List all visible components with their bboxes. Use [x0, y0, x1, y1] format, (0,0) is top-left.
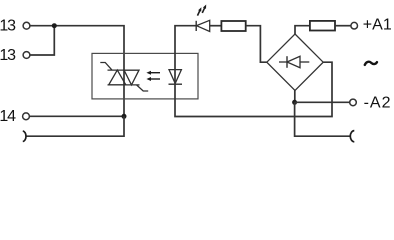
plug contact arc lower right — [350, 131, 354, 142]
bridge diode triangle — [287, 56, 300, 67]
bridge diode cathode bar — [286, 56, 288, 68]
wire LED to resistor R1 — [210, 25, 222, 27]
photo-triac right triangle — [124, 70, 139, 85]
optocoupler box U1 — [92, 53, 198, 99]
photo-triac upper rail — [108, 69, 140, 71]
terminal circle -A2 — [350, 99, 357, 106]
terminal label -A2 — [364, 95, 392, 112]
opto LED triangle — [169, 70, 181, 84]
bridge diode lead left — [279, 61, 287, 63]
bridge-contact wire lower right — [295, 102, 351, 136]
junction dot node 14 — [122, 114, 127, 119]
bridge-contact wire lower left — [26, 116, 124, 136]
opto light arrow upper — [146, 71, 160, 75]
junction dot node A2 — [292, 100, 297, 105]
wire from 13 upper to corner and down to node 14 — [30, 26, 124, 117]
svg-text:-A2: -A2 — [364, 95, 392, 112]
terminal circle 13 upper — [23, 22, 30, 29]
junction dot 13 bus — [52, 23, 57, 28]
bridge diode lead right — [300, 61, 309, 63]
photo-triac lower-right lead — [137, 85, 149, 91]
svg-text:14: 14 — [0, 108, 16, 125]
indicator LED cathode bar — [195, 21, 197, 31]
terminal circle 13 lower — [23, 52, 30, 59]
wire bridge top vertex to resistor R2 — [295, 26, 310, 34]
wire bridge bottom vertex to node A2 — [294, 90, 296, 102]
bridge rectifier diamond — [267, 34, 323, 90]
terminal label 13 (lower) — [0, 47, 16, 64]
terminal label 13 (upper) — [0, 18, 16, 35]
terminal circle 14 — [23, 113, 30, 120]
terminal label 14 — [0, 108, 16, 125]
opto light arrow lower — [146, 77, 160, 81]
photo-triac lower rail — [108, 84, 140, 86]
plug contact arc lower left — [23, 131, 26, 142]
terminal circle +A1 — [351, 22, 358, 29]
wire from 14 to triac node — [29, 115, 124, 117]
wire node A2 to terminal -A2 — [295, 101, 350, 103]
indicator LED triangle — [197, 20, 210, 31]
wire opto anode from indicator node down and return line to bridge — [175, 26, 332, 117]
wire R1 to bridge left vertex — [246, 26, 267, 63]
indicator LED emission arrow right — [201, 4, 208, 14]
opto LED cathode bar — [169, 83, 183, 85]
svg-text:+A1: +A1 — [363, 17, 392, 34]
wire from 13 lower up to junction — [30, 26, 54, 55]
resistor R2 — [310, 21, 335, 31]
indicator LED emission arrow left — [196, 6, 203, 16]
wire R2 to terminal +A1 — [335, 25, 351, 27]
svg-text:13: 13 — [0, 47, 16, 64]
photo-triac left triangle — [109, 70, 126, 85]
photo-triac upper-left lead — [100, 63, 112, 71]
resistor R1 — [221, 21, 245, 31]
terminal label +A1 — [363, 17, 392, 34]
AC tilde symbol — [365, 62, 377, 65]
svg-text:13: 13 — [0, 18, 16, 35]
